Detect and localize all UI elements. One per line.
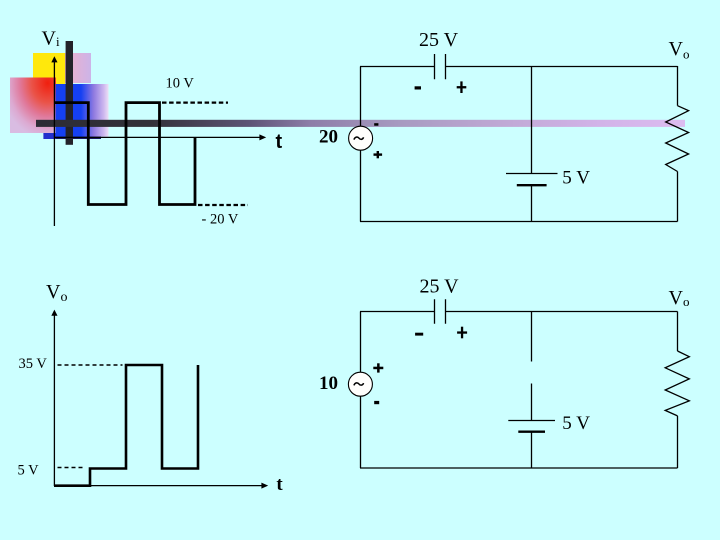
svg-text:- 20 V: - 20 V [202,211,239,227]
svg-text:10: 10 [319,373,338,394]
svg-text:5 V: 5 V [562,167,590,188]
svg-text:10 V: 10 V [166,75,195,91]
svg-text:t: t [276,131,283,153]
svg-text:20: 20 [319,126,338,147]
svg-text:5 V: 5 V [562,413,590,434]
svg-text:5 V: 5 V [18,463,40,479]
svg-text:25 V: 25 V [419,29,459,51]
svg-text:35 V: 35 V [19,356,48,372]
svg-text:t: t [276,474,283,495]
svg-text:25 V: 25 V [420,275,460,297]
